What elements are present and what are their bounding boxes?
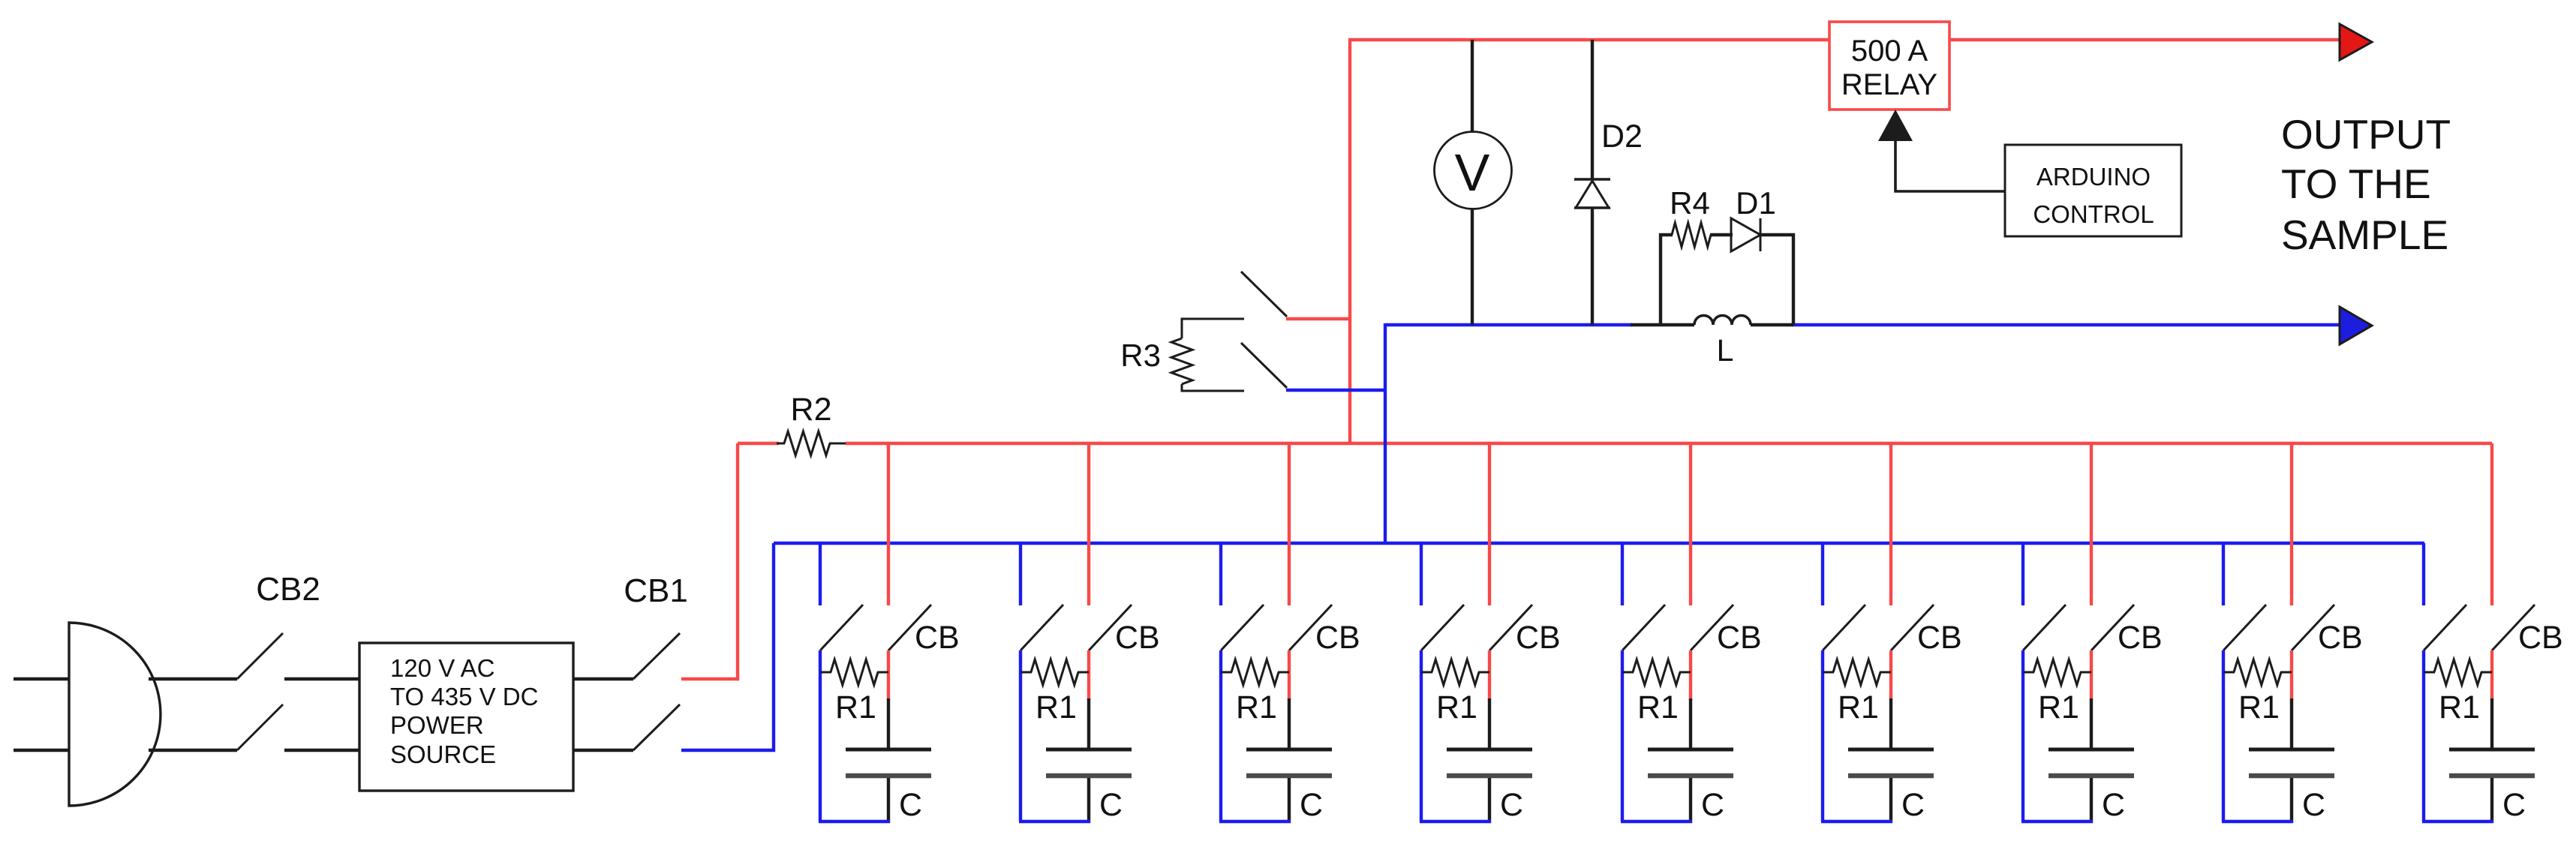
svg-text:R1: R1 <box>835 689 876 725</box>
wire blue cell 5 left leg <box>1621 650 1624 821</box>
wire blue cell 8 left leg <box>2222 650 2225 821</box>
svg-text:TO 435 V DC: TO 435 V DC <box>390 683 538 710</box>
circuit breaker CB cell 6 right pole blade <box>1891 605 1934 650</box>
svg-text:C: C <box>1500 787 1523 823</box>
wire cell 7 capacitor bottom lead <box>2090 778 2093 823</box>
svg-text:L: L <box>1717 333 1734 368</box>
wire red cell 5 stub below breaker <box>1689 650 1692 700</box>
resistor R1 cell 4 <box>1432 659 1479 685</box>
wire blue output line right <box>1792 323 2340 326</box>
wire red bus main <box>846 442 2492 445</box>
wire power source to CB1 bottom <box>573 749 633 752</box>
svg-text:CB: CB <box>1516 620 1561 656</box>
resistor R1 cell 8 <box>2234 659 2281 685</box>
wire blue bus <box>774 542 2424 545</box>
wire red cell 1 stub below breaker <box>887 650 890 700</box>
svg-text:CB2: CB2 <box>256 571 320 608</box>
svg-text:CB1: CB1 <box>624 572 688 609</box>
wire blue cell 7 left leg <box>2021 650 2024 821</box>
wire red cell 7 right drop <box>2090 443 2093 605</box>
wire blue cell 8 bottom <box>2222 820 2293 823</box>
svg-text:SAMPLE: SAMPLE <box>2281 212 2448 258</box>
svg-text:D1: D1 <box>1736 185 1776 221</box>
wire blue cell 4 left drop <box>1420 543 1423 605</box>
wire cell 9 capacitor top lead <box>2490 698 2493 749</box>
svg-text:R4: R4 <box>1670 185 1710 221</box>
circuit breaker CB cell 2 left pole blade <box>1020 605 1063 650</box>
svg-text:CONTROL: CONTROL <box>2033 200 2154 228</box>
circuit breaker CB cell 1 left pole blade <box>820 605 863 650</box>
svg-text:CB: CB <box>1917 620 1962 656</box>
wire red cell 9 stub below breaker <box>2490 650 2493 700</box>
wire blue main riser <box>1384 323 1387 545</box>
circuit breaker CB cell 7 right pole blade <box>2091 605 2134 650</box>
wire red main riser <box>1348 40 1351 445</box>
circuit breaker CB1 bottom pole blade <box>633 704 680 750</box>
wire red cell 3 right drop <box>1288 443 1291 605</box>
wire red cell 6 stub below breaker <box>1889 650 1892 700</box>
wire cell 5 capacitor bottom lead <box>1689 778 1692 823</box>
wire cell 7 capacitor top lead <box>2090 698 2093 749</box>
switch S2 R3 bottom blade <box>1241 343 1287 388</box>
resistor R2 <box>777 443 785 445</box>
wire cell 3 capacitor top lead <box>1288 698 1291 749</box>
svg-text:R2: R2 <box>791 392 832 428</box>
svg-text:C: C <box>2302 787 2325 823</box>
resistor R1 cell 5 <box>1633 659 1680 685</box>
wire blue cell 3 left drop <box>1219 543 1222 605</box>
wire cell 1 capacitor top lead <box>887 698 890 749</box>
wire red S1 to main riser <box>1286 317 1350 320</box>
wire blue cell 2 left leg <box>1019 650 1022 821</box>
wire inductor left black lead <box>1631 323 1694 326</box>
wire cell 5 capacitor top lead <box>1689 698 1692 749</box>
wire blue cell 1 left leg <box>819 650 822 821</box>
resistor R1 cell 1 <box>831 659 878 685</box>
wire red cell 2 right drop <box>1087 443 1090 605</box>
svg-text:C: C <box>1300 787 1323 823</box>
wire blue cell 6 bottom <box>1821 820 1892 823</box>
circuit breaker CB cell 3 left pole blade <box>1221 605 1264 650</box>
svg-text:ARDUINO: ARDUINO <box>2036 163 2151 191</box>
capacitor C cell 9 <box>2449 748 2535 752</box>
wire blue cell 7 bottom <box>2021 820 2093 823</box>
wire inductor right black lead <box>1751 323 1793 326</box>
wire plug bottom prong <box>14 749 69 752</box>
svg-text:C: C <box>2502 787 2526 823</box>
svg-text:R1: R1 <box>1436 689 1477 725</box>
resistor R1 cell 9 <box>2434 659 2481 685</box>
wire red cell 1 right drop <box>887 443 890 605</box>
circuit breaker CB cell 8 right pole blade <box>2292 605 2334 650</box>
circuit breaker CB cell 2 right pole blade <box>1089 605 1132 650</box>
wire power source to CB1 top <box>573 677 633 680</box>
circuit breaker CB cell 4 left pole blade <box>1421 605 1464 650</box>
resistor R1 cell 6 <box>1833 659 1880 685</box>
wire blue cell 6 left drop <box>1821 543 1824 605</box>
capacitor C cell 2 <box>1046 748 1132 752</box>
svg-text:500 A: 500 A <box>1851 35 1928 68</box>
wire blue cell 5 bottom <box>1621 820 1692 823</box>
wire blue cell 9 left leg <box>2422 650 2425 821</box>
wire blue cell 5 left drop <box>1621 543 1624 605</box>
diode D2 <box>1574 178 1610 180</box>
svg-text:R1: R1 <box>2439 689 2480 725</box>
capacitor C cell 6 <box>1848 748 1934 752</box>
wire blue cell 4 bottom <box>1420 820 1491 823</box>
wire blue cell 9 left drop <box>2422 543 2425 605</box>
inductor L <box>1694 316 1751 326</box>
voltmeter V1 circle <box>1435 132 1512 209</box>
wire red bus left segment <box>738 442 779 445</box>
wire blue cell 6 left leg <box>1821 650 1824 821</box>
wire red cell 4 right drop <box>1488 443 1491 605</box>
wire snubber right leg <box>1759 235 1793 325</box>
svg-text:R1: R1 <box>2038 689 2079 725</box>
svg-text:CB: CB <box>2318 620 2363 656</box>
circuit breaker CB cell 4 right pole blade <box>1489 605 1532 650</box>
wire cell 1 capacitor bottom lead <box>887 778 890 823</box>
svg-text:R1: R1 <box>1637 689 1679 725</box>
circuit breaker CB cell 8 left pole blade <box>2223 605 2266 650</box>
svg-text:C: C <box>1099 787 1123 823</box>
circuit breaker CB cell 6 left pole blade <box>1823 605 1865 650</box>
circuit breaker CB2 top pole blade <box>237 633 283 679</box>
wire CB2 to power source top <box>284 677 359 680</box>
wire snubber left leg <box>1661 235 1673 325</box>
circuit breaker CB cell 9 right pole blade <box>2492 605 2535 650</box>
wire blue cell 1 bottom <box>819 820 890 823</box>
wire red top rail right of relay <box>1948 38 2340 41</box>
resistor R1 cell 7 <box>2033 659 2081 685</box>
svg-text:CB: CB <box>2118 620 2163 656</box>
wire D2 branch upper <box>1591 40 1594 180</box>
svg-text:CB: CB <box>1717 620 1762 656</box>
wire red cell 6 right drop <box>1889 443 1892 605</box>
svg-text:C: C <box>1901 787 1925 823</box>
wire blue CB1 to blue bus riser <box>681 543 774 750</box>
svg-text:CB: CB <box>915 620 960 656</box>
svg-text:R1: R1 <box>1838 689 1879 725</box>
wire blue cell 1 left drop <box>819 543 822 605</box>
wire red top rail left of relay <box>1348 38 1831 41</box>
wire red cell 8 right drop <box>2290 443 2293 605</box>
circuit breaker CB1 top pole blade <box>633 633 680 679</box>
wire cell 2 capacitor bottom lead <box>1087 778 1090 823</box>
svg-text:RELAY: RELAY <box>1841 68 1937 101</box>
arduino control box <box>2005 145 2181 236</box>
svg-text:C: C <box>1701 787 1724 823</box>
svg-text:POWER: POWER <box>390 711 484 739</box>
wire D2 branch lower <box>1591 208 1594 325</box>
circuit breaker CB cell 5 left pole blade <box>1622 605 1665 650</box>
diode D1 <box>1731 218 1760 251</box>
svg-text:D2: D2 <box>1601 119 1643 155</box>
svg-text:C: C <box>2102 787 2125 823</box>
wire red CB1 to R2 riser <box>681 443 738 679</box>
capacitor C cell 5 <box>1648 748 1733 752</box>
wire blue cell 7 left drop <box>2021 543 2024 605</box>
wire blue output line left <box>1385 323 1632 326</box>
wire cell 8 capacitor top lead <box>2290 698 2293 749</box>
svg-text:CB: CB <box>2518 620 2563 656</box>
wire blue cell 9 bottom <box>2422 820 2493 823</box>
arrow arduino to relay <box>1878 110 1913 141</box>
svg-text:R1: R1 <box>1036 689 1077 725</box>
wire blue cell 4 left leg <box>1420 650 1423 821</box>
wire blue cell 2 bottom <box>1019 820 1090 823</box>
wire plug to CB2 top <box>149 677 237 680</box>
wire R4 to D1 <box>1710 233 1733 236</box>
svg-text:CB: CB <box>1315 620 1360 656</box>
wire red cell 7 stub below breaker <box>2090 650 2093 700</box>
wire plug to CB2 bottom <box>149 749 237 752</box>
circuit breaker CB cell 9 left pole blade <box>2424 605 2466 650</box>
svg-text:C: C <box>899 787 922 823</box>
resistor R1 cell 2 <box>1031 659 1078 685</box>
svg-text:OUTPUT: OUTPUT <box>2281 111 2451 158</box>
svg-text:V: V <box>1455 143 1490 202</box>
wire voltmeter bottom lead <box>1471 208 1474 325</box>
circuit breaker CB cell 5 right pole blade <box>1691 605 1733 650</box>
resistor R1 cell 3 <box>1231 659 1279 685</box>
resistor R3 <box>1182 319 1244 338</box>
wire CB2 to power source bottom <box>284 749 359 752</box>
wire cell 6 capacitor bottom lead <box>1889 778 1892 823</box>
wire blue cell 3 bottom <box>1219 820 1291 823</box>
circuit breaker CB cell 7 left pole blade <box>2023 605 2066 650</box>
wire cell 6 capacitor top lead <box>1889 698 1892 749</box>
svg-text:R1: R1 <box>1236 689 1277 725</box>
wire red cell 8 stub below breaker <box>2290 650 2293 700</box>
wire cell 4 capacitor top lead <box>1488 698 1491 749</box>
relay K1 500A box <box>1829 22 1949 110</box>
wire cell 2 capacitor top lead <box>1087 698 1090 749</box>
switch S1 R3 top blade <box>1241 272 1287 317</box>
wire cell 9 capacitor bottom lead <box>2490 778 2493 823</box>
arrow blue output <box>2340 307 2372 344</box>
wall plug P1 body <box>69 623 161 806</box>
wire red cell 9 right drop <box>2490 443 2493 605</box>
wire cell 4 capacitor bottom lead <box>1488 778 1491 823</box>
svg-text:R3: R3 <box>1120 338 1161 373</box>
wire red cell 3 stub below breaker <box>1288 650 1291 700</box>
wire blue cell 8 left drop <box>2222 543 2225 605</box>
capacitor C cell 8 <box>2249 748 2334 752</box>
arrow red output <box>2340 24 2372 60</box>
svg-text:SOURCE: SOURCE <box>390 740 496 768</box>
wire plug top prong <box>14 677 69 680</box>
svg-text:CB: CB <box>1115 620 1160 656</box>
wire cell 3 capacitor bottom lead <box>1288 778 1291 823</box>
wire blue cell 3 left leg <box>1219 650 1222 821</box>
svg-text:120 V AC: 120 V AC <box>390 654 494 682</box>
wire red cell 5 right drop <box>1689 443 1692 605</box>
wire cell 8 capacitor bottom lead <box>2290 778 2293 823</box>
capacitor C cell 3 <box>1246 748 1332 752</box>
wire voltmeter top lead <box>1471 40 1474 133</box>
capacitor C cell 4 <box>1447 748 1532 752</box>
circuit breaker CB cell 3 right pole blade <box>1289 605 1332 650</box>
wire blue S2 to main blue riser <box>1286 389 1385 392</box>
svg-text:R1: R1 <box>2238 689 2280 725</box>
svg-text:TO THE: TO THE <box>2281 161 2431 207</box>
wire blue cell 2 left drop <box>1019 543 1022 605</box>
circuit breaker CB cell 1 right pole blade <box>888 605 931 650</box>
wire red cell 4 stub below breaker <box>1488 650 1491 700</box>
capacitor C cell 7 <box>2048 748 2134 752</box>
wire red cell 2 stub below breaker <box>1087 650 1090 700</box>
power source PS1 box <box>359 643 573 791</box>
capacitor C cell 1 <box>846 748 931 752</box>
circuit breaker CB2 bottom pole blade <box>237 704 283 750</box>
resistor R4 <box>1672 223 1711 247</box>
